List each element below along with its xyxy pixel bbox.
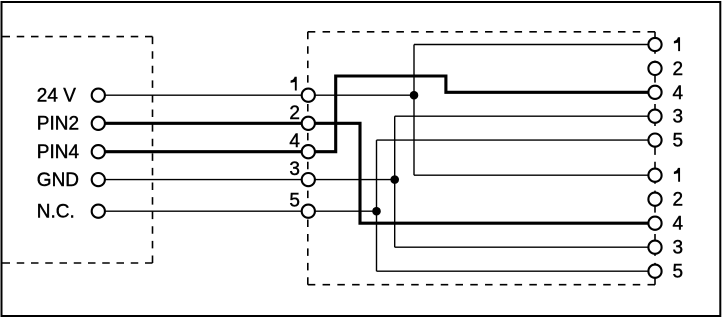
right top pin 4 — [648, 86, 661, 99]
svg-text:2: 2 — [673, 59, 684, 80]
wire GND to middle pin 3 and node — [98, 179, 394, 181]
svg-text:3: 3 — [673, 107, 684, 128]
junction node on GND line — [390, 175, 399, 184]
junction node on 24V line — [410, 91, 419, 100]
right device box right edge (dashed) — [654, 32, 656, 285]
right top pin number 1 — [674, 37, 680, 51]
right bottom pin number 1 — [674, 168, 680, 182]
svg-text:4: 4 — [673, 214, 684, 235]
middle pin 2 — [302, 117, 315, 130]
terminal GND — [92, 173, 105, 186]
wire GND vertical branch — [394, 116, 396, 247]
right bottom pin 3 — [648, 241, 661, 254]
middle pin 5 — [302, 205, 315, 218]
right top pin 3 — [648, 110, 661, 123]
svg-text:5: 5 — [673, 131, 684, 152]
terminal 24 V — [92, 89, 105, 102]
right bottom pin 1 — [648, 169, 661, 182]
svg-text:5: 5 — [673, 262, 684, 283]
svg-text:PIN2: PIN2 — [37, 114, 79, 135]
svg-text:3: 3 — [673, 238, 684, 259]
wire 24V to middle pin 1 and node — [98, 94, 414, 96]
terminal PIN4 — [92, 145, 105, 158]
svg-text:PIN4: PIN4 — [37, 142, 80, 163]
svg-text:2: 2 — [289, 103, 300, 124]
terminal PIN2 — [92, 117, 105, 130]
left device box right edge (dashed) — [152, 37, 154, 263]
svg-text:GND: GND — [37, 170, 79, 191]
left device box bottom edge (dashed) — [3, 262, 153, 264]
junction node on N.C. line — [372, 207, 381, 216]
svg-text:3: 3 — [289, 159, 300, 180]
wire 24V vertical branch — [413, 45, 415, 176]
terminal N.C. — [92, 205, 105, 218]
right top pin 2 — [648, 62, 661, 75]
right bottom pin 4 — [648, 217, 661, 230]
wire GND branch to top pin 3 — [395, 115, 655, 117]
svg-text:5: 5 — [289, 191, 300, 212]
right device box bottom edge (dashed) — [308, 284, 655, 286]
wire N.C. vertical branch — [376, 140, 378, 271]
middle pin number 1 — [291, 77, 297, 91]
svg-text:N.C.: N.C. — [37, 202, 75, 223]
wire PIN2 thick to bottom pin 4 — [98, 123, 655, 223]
right device box left edge (dashed) — [307, 32, 309, 285]
wire N.C. branch to bottom pin 5 — [377, 270, 656, 272]
svg-text:24 V: 24 V — [37, 86, 76, 107]
middle pin 1 — [302, 89, 315, 102]
wire PIN4 thick to top pin 4 — [98, 76, 655, 152]
wire 24V branch to bottom pin 1 — [414, 174, 655, 176]
right bottom pin 5 — [648, 265, 661, 278]
right device box top edge (dashed) — [308, 31, 655, 33]
wire 24V branch to top pin 1 — [414, 44, 655, 46]
svg-text:4: 4 — [289, 131, 300, 152]
right bottom pin 2 — [648, 193, 661, 206]
wire N.C. to middle pin 5 and node — [98, 210, 376, 212]
svg-text:2: 2 — [673, 190, 684, 211]
right top pin 5 — [648, 134, 661, 147]
right top pin 1 — [648, 38, 661, 51]
middle pin 4 — [302, 145, 315, 158]
svg-text:4: 4 — [673, 83, 684, 104]
wire GND branch to bottom pin 3 — [395, 246, 655, 248]
wire N.C. branch to top pin 5 — [377, 139, 656, 141]
left device box top edge (dashed) — [3, 36, 153, 38]
middle pin 3 — [302, 173, 315, 186]
